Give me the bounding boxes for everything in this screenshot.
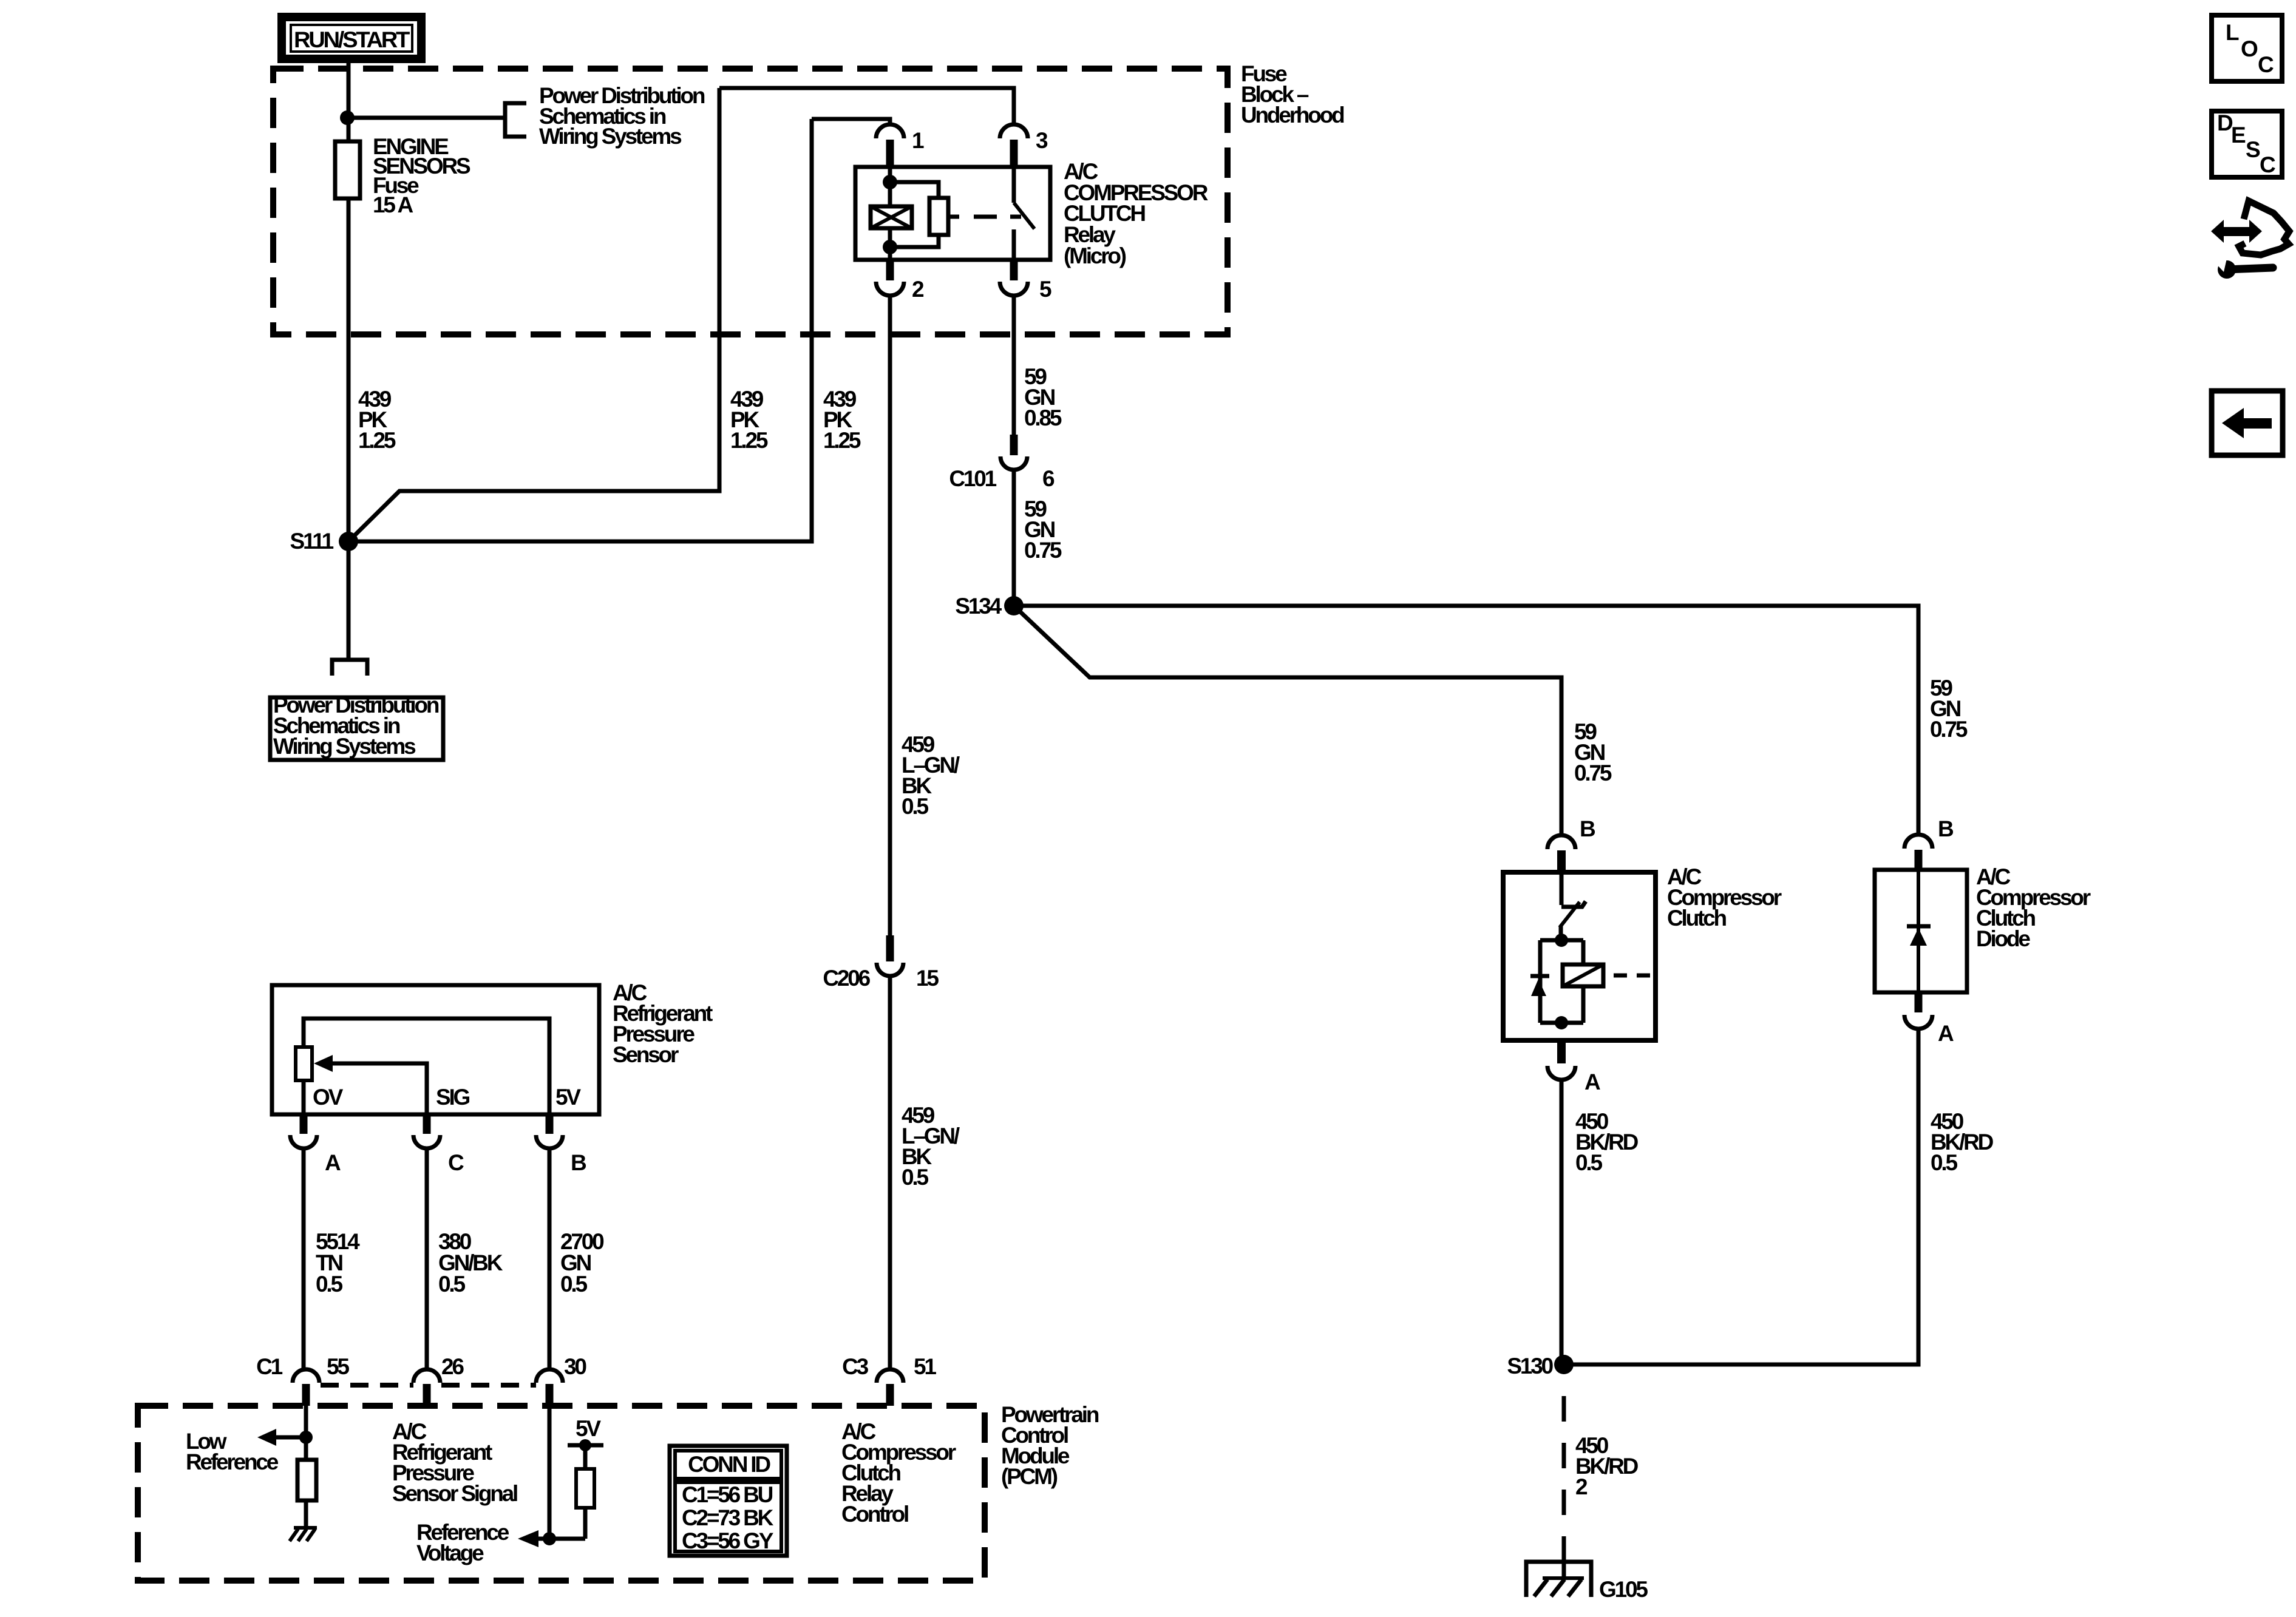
wire sensor C to PCM pin 26 (425, 1148, 429, 1369)
relay actuator dashed link (948, 215, 1021, 219)
svg-text:G105: G105 (1599, 1577, 1648, 1602)
wire from fuse down to S111 and below (347, 198, 351, 659)
svg-text:1: 1 (912, 128, 924, 153)
sensor wiper arrow wire (331, 1063, 427, 1114)
svg-text:0.75: 0.75 (1930, 717, 1968, 742)
PCM connector C1 pin 55 (256, 1354, 349, 1406)
svg-text:C: C (2258, 52, 2274, 77)
label A/C Refrigerant Pressure Sensor Signal (392, 1419, 517, 1506)
wire second horizontal feed to relay pin 1 (812, 119, 890, 125)
wire dashed S130 to G105 (1562, 1396, 1566, 1562)
svg-text:3: 3 (1036, 128, 1048, 153)
wire pin 55 to low reference node (304, 1406, 308, 1437)
svg-text:C1: C1 (256, 1354, 283, 1379)
svg-text:30: 30 (564, 1354, 586, 1379)
svg-text:RUN/START: RUN/START (294, 27, 410, 52)
svg-text:C2=73 BK: C2=73 BK (682, 1505, 774, 1530)
wire label 59 GN 0.85 (1024, 364, 1062, 430)
svg-text:0.5: 0.5 (1575, 1150, 1602, 1175)
svg-text:15 A: 15 A (373, 192, 413, 217)
svg-text:A: A (1584, 1070, 1600, 1094)
svg-text:0.5: 0.5 (902, 1165, 928, 1190)
low reference arrow wire (274, 1436, 306, 1440)
internal ground marks (290, 1528, 317, 1541)
wire S134 diagonal to clutch branch (1014, 606, 1561, 835)
wire C206 down to PCM C3 pin 51 (888, 976, 892, 1369)
RUN/START power label box (282, 17, 421, 59)
svg-text:5V: 5V (576, 1416, 601, 1441)
icon LOC box (2212, 15, 2282, 81)
relay K1 pin 2 connector (876, 260, 924, 302)
label Fuse Block - Underhood (1241, 61, 1344, 127)
svg-text:C101: C101 (949, 466, 996, 491)
wire from RUN/START to fuse (347, 63, 351, 141)
svg-text:Sensor: Sensor (613, 1042, 679, 1067)
svg-text:O: O (2241, 36, 2258, 61)
svg-text:Sensor Signal: Sensor Signal (392, 1481, 517, 1506)
wire label 5514 TN 0.5 (316, 1229, 360, 1297)
svg-text:6: 6 (1042, 466, 1055, 491)
relay K1 pin 5 connector (1000, 260, 1051, 302)
label A/C COMPRESSOR CLUTCH Relay (Micro) (1064, 159, 1208, 268)
svg-text:2: 2 (1575, 1474, 1588, 1499)
svg-text:2: 2 (912, 277, 924, 302)
relay switch lower contact to pin 5 (1012, 229, 1016, 260)
wire label 450 BK/RD 2 (1575, 1433, 1639, 1499)
icon back arrow box (2212, 391, 2283, 455)
label Powertrain Control Module (PCM) (1001, 1402, 1099, 1489)
svg-text:0.5: 0.5 (902, 794, 928, 819)
svg-text:A: A (325, 1150, 341, 1175)
svg-text:1.25: 1.25 (358, 428, 396, 453)
svg-text:1.25: 1.25 (823, 428, 861, 453)
wire pin 2 down to C206 (888, 296, 892, 935)
relay coil box with X (871, 206, 912, 228)
label ENGINE SENSORS Fuse 15 A (373, 134, 470, 217)
svg-text:CONN ID: CONN ID (688, 1452, 770, 1477)
wire C101 down to S134 (1012, 470, 1016, 606)
A/C Refrigerant Pressure Sensor box (272, 985, 599, 1114)
PCM internal resistor on pin 55 line (304, 1437, 308, 1460)
svg-text:26: 26 (441, 1354, 464, 1379)
reference voltage arrowhead (518, 1530, 538, 1547)
svg-text:B: B (1938, 816, 1954, 841)
ground G105 (1526, 1562, 1648, 1602)
wire label 380 GN/BK 0.5 (438, 1229, 503, 1297)
relay switch contact from pin 3 (1012, 167, 1016, 203)
PCM internal 5V pull-up (549, 1416, 603, 1539)
PCM connector C3 pin 51 (842, 1354, 936, 1406)
svg-text:A: A (1938, 1021, 1954, 1046)
clutch internal switch blade (1560, 902, 1580, 927)
relay U1: A/C COMPRESSOR CLUTCH Relay (Micro) box (855, 167, 1050, 260)
wire diode A down to S130 (1564, 1029, 1918, 1364)
wire pin 30 to reference voltage node (548, 1406, 552, 1539)
svg-text:0.75: 0.75 (1574, 761, 1612, 785)
sensor 5V supply loop wire (304, 1019, 549, 1114)
svg-text:(Micro): (Micro) (1064, 243, 1126, 268)
node loop bottom dot (1555, 1016, 1568, 1029)
svg-text:Reference: Reference (186, 1449, 279, 1474)
label Reference Voltage (416, 1520, 509, 1565)
wire label 2700 GN 0.5 (560, 1229, 604, 1297)
node S130 (1554, 1355, 1574, 1374)
node low reference junction (299, 1431, 313, 1444)
svg-text:L: L (2226, 20, 2239, 45)
label A/C Compressor Clutch Relay Control (841, 1419, 956, 1527)
node coil bottom dot (883, 240, 897, 254)
diode D1 symbol (1907, 870, 1931, 992)
CONN ID table (670, 1446, 787, 1556)
wire 439 PK #2 down from top horizontal to S111 (348, 88, 719, 541)
wire 439 PK #3 down to S111 (348, 119, 812, 541)
relay K1 pin 3 connector (1000, 124, 1048, 167)
wire label 59 GN 0.75 (diode branch) (1930, 676, 1968, 742)
svg-text:15: 15 (916, 966, 939, 991)
wire top horizontal feed to relay pin 3 (719, 88, 1014, 125)
svg-text:C3: C3 (842, 1354, 869, 1379)
Powertrain Control Module (PCM) dashed box (138, 1406, 985, 1581)
wire sensor A to PCM pin 55 (302, 1148, 306, 1369)
node junction dot above fuse (340, 110, 355, 125)
node S134 (1004, 596, 1024, 615)
wire label 459 L-GN/ BK 0.5 (lower) (902, 1103, 960, 1190)
wire label 450 BK/RD 0.5 (right) (1931, 1109, 1994, 1175)
svg-text:Voltage: Voltage (416, 1541, 484, 1565)
node loop top dot (1555, 934, 1568, 947)
svg-text:C: C (2260, 152, 2275, 177)
svg-text:B: B (1580, 816, 1595, 841)
svg-text:0.5: 0.5 (438, 1272, 465, 1297)
svg-text:Clutch: Clutch (1667, 906, 1727, 931)
sensor pin B connector (536, 1114, 586, 1175)
svg-text:55: 55 (327, 1354, 349, 1379)
svg-text:Underhood: Underhood (1241, 103, 1344, 127)
svg-text:C: C (448, 1150, 464, 1175)
connector C101 pin 6 (949, 435, 1055, 491)
dashed link between C1 pins (321, 1383, 536, 1388)
svg-text:0.5: 0.5 (1931, 1150, 1957, 1175)
svg-text:51: 51 (914, 1354, 936, 1379)
svg-text:0.5: 0.5 (316, 1272, 342, 1297)
relay parallel resistor loop (890, 182, 939, 247)
svg-text:B: B (571, 1150, 586, 1175)
svg-text:1.25: 1.25 (730, 428, 768, 453)
sensor pin C connector (413, 1114, 464, 1175)
svg-text:OV: OV (313, 1085, 344, 1110)
svg-text:C1=56 BU: C1=56 BU (682, 1482, 773, 1507)
diode pin A connector (1904, 992, 1954, 1046)
A/C Compressor Clutch box (1503, 872, 1656, 1040)
svg-text:S130: S130 (1507, 1354, 1553, 1378)
svg-text:0.75: 0.75 (1024, 538, 1062, 563)
svg-text:Wiring Systems: Wiring Systems (539, 124, 682, 149)
svg-text:(PCM): (PCM) (1001, 1464, 1058, 1489)
node coil top dot (883, 175, 897, 189)
label A/C Compressor Clutch (1667, 864, 1782, 931)
reference voltage arrow wire (537, 1537, 549, 1541)
node S111 (339, 532, 358, 551)
wire pin 5 down to C101 (1012, 296, 1016, 435)
wire label 439 PK 1.25 (right) (823, 387, 861, 453)
Fuse Block - Underhood dashed box (273, 69, 1228, 334)
A/C Compressor Clutch Diode box (1875, 870, 1967, 992)
svg-text:5: 5 (1039, 277, 1051, 302)
svg-text:Wiring Systems: Wiring Systems (273, 734, 416, 759)
wire label 459 L-GN/ BK 0.5 (upper) (902, 732, 960, 819)
connector C206 pin 15 (823, 935, 939, 991)
PCM connector C1 pin 26 (413, 1354, 464, 1406)
svg-text:Control: Control (841, 1502, 908, 1527)
wire label 450 BK/RD 0.5 (left) (1575, 1109, 1639, 1175)
svg-text:SIG: SIG (436, 1085, 470, 1110)
svg-text:0.5: 0.5 (560, 1272, 587, 1297)
svg-text:S: S (2246, 137, 2260, 162)
label Power Distribution Schematics in Wiring Systems (top) (539, 83, 705, 149)
wire label 439 PK 1.25 (left) (358, 387, 396, 453)
relay coil wire pin1 to pin2 (888, 167, 892, 260)
svg-text:S134: S134 (955, 594, 1002, 619)
sensor wiper arrowhead (314, 1055, 333, 1072)
svg-text:E: E (2231, 123, 2246, 147)
svg-text:S111: S111 (290, 529, 333, 554)
svg-text:Diode: Diode (1976, 926, 2030, 951)
clutch pin B connector (1547, 816, 1595, 872)
label Low Reference (186, 1429, 279, 1474)
label A/C Refrigerant Pressure Sensor (613, 980, 713, 1067)
icon schematic-nav (double arrow, connector face, wrench) (2211, 201, 2289, 279)
sensor pin A connector (290, 1114, 341, 1175)
wire label 59 GN 0.75 (clutch branch) (1574, 719, 1612, 785)
clutch mechanical dashed link (1614, 974, 1650, 978)
svg-text:C3=56 GY: C3=56 GY (682, 1528, 774, 1553)
node reference voltage junction (543, 1532, 556, 1545)
wire clutch A down to S130 (1560, 1080, 1564, 1364)
svg-text:C206: C206 (823, 966, 870, 991)
PCM connector C1 pin 30 (536, 1354, 586, 1406)
clutch suppression diode (left branch) (1530, 976, 1549, 996)
svg-text:0.85: 0.85 (1024, 405, 1062, 430)
icon DESC box (2212, 110, 2282, 177)
wire label 439 PK 1.25 (middle) (730, 387, 768, 453)
svg-text:5V: 5V (555, 1085, 581, 1110)
relay K1 pin 1 connector (876, 124, 924, 167)
wire sensor B to PCM pin 30 (548, 1148, 552, 1369)
clutch coil loop (1540, 940, 1583, 1023)
clutch pin A connector (1547, 1040, 1600, 1094)
label A/C Compressor Clutch Diode (1976, 864, 2091, 951)
Power Distribution Schematics in Wiring Systems box (bottom) (270, 693, 443, 760)
clutch blade pivot wire (1559, 926, 1563, 940)
clutch solenoid element (right branch) (1563, 964, 1603, 986)
wire label 59 GN 0.75 (below C101) (1024, 497, 1062, 563)
wire S134 to diode branch (top horizontal) (1014, 606, 1918, 835)
sensor potentiometer resistor (296, 1047, 312, 1080)
off-page bracket (power distribution schematics) (505, 103, 526, 137)
resistor R in relay (929, 198, 948, 235)
clutch internal switch contact (1561, 872, 1586, 907)
relay switch blade (1014, 203, 1034, 229)
wire branch to power distribution bracket (347, 116, 505, 120)
fuse F: ENGINE SENSORS Fuse 15 A (335, 141, 360, 198)
off-page connector below S111 (332, 660, 367, 676)
diode D1 pin B connector (1904, 816, 1954, 870)
low reference arrowhead (257, 1429, 276, 1446)
sensor 0V wire below resistor (302, 1080, 306, 1114)
